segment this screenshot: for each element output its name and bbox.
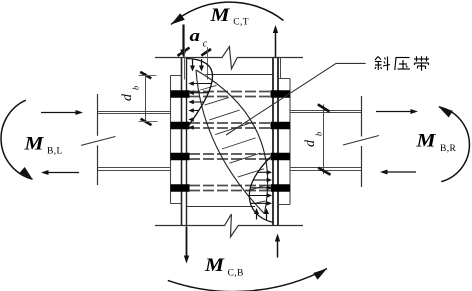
svg-text:b: b xyxy=(131,86,141,90)
svg-text:c: c xyxy=(203,38,208,49)
svg-text:M: M xyxy=(209,5,230,26)
svg-text:d: d xyxy=(120,93,135,101)
svg-text:C,B: C,B xyxy=(228,268,244,278)
svg-text:d: d xyxy=(303,139,318,147)
svg-text:M: M xyxy=(415,131,436,152)
svg-text:M: M xyxy=(23,134,44,155)
svg-text:B,L: B,L xyxy=(47,146,63,156)
svg-text:C,T: C,T xyxy=(233,18,249,28)
svg-text:B,R: B,R xyxy=(440,144,457,154)
svg-text:M: M xyxy=(204,255,225,276)
svg-text:b: b xyxy=(314,132,324,136)
svg-text:a: a xyxy=(190,26,201,45)
